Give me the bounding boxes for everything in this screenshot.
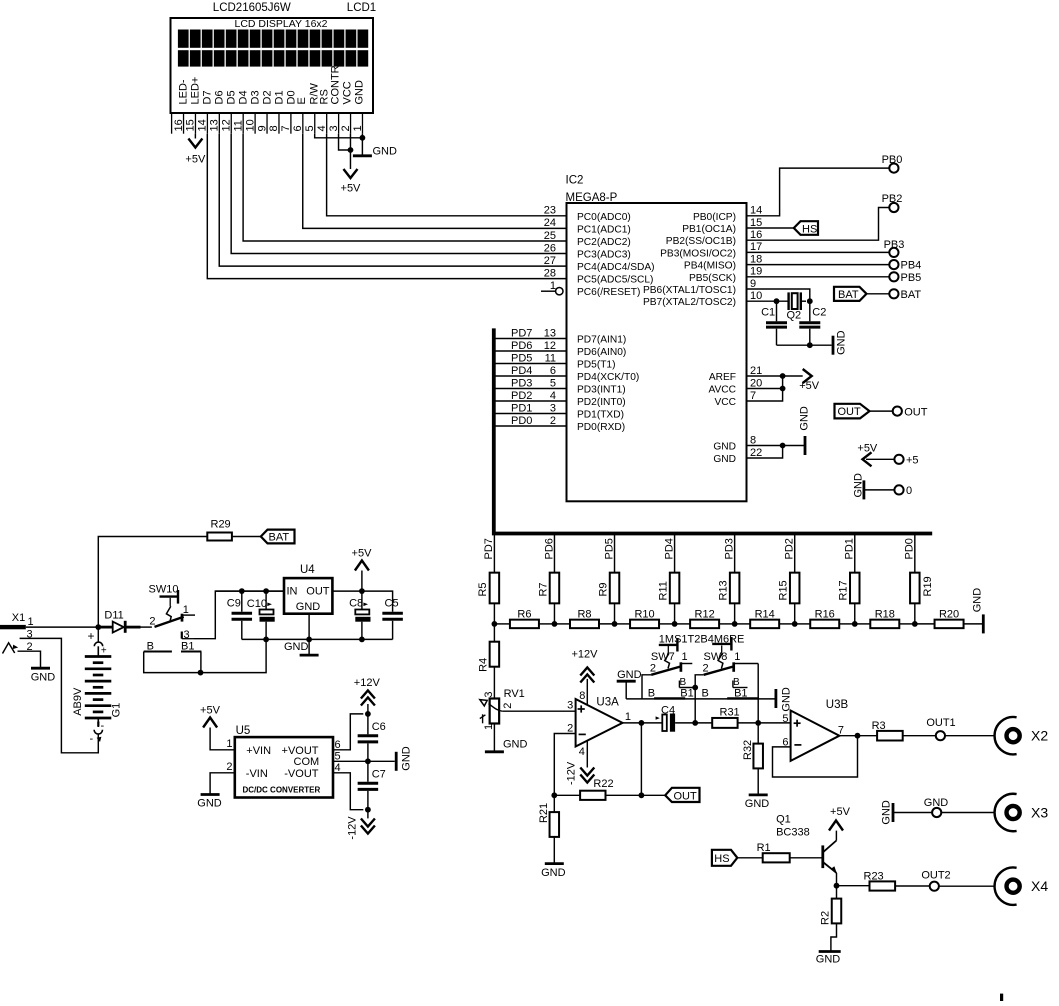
ground symbol below U4 — [284, 639, 319, 655]
svg-text:+: + — [88, 629, 95, 643]
svg-text:+5: +5 — [906, 455, 919, 467]
svg-text:PB4(MISO): PB4(MISO) — [684, 261, 736, 272]
resistor R19 — [910, 573, 934, 604]
-12V supply arrow at U5 — [347, 810, 375, 840]
wire R23 to OUT2 pad — [895, 885, 930, 887]
wire U3A pin4 to -12V — [579, 741, 588, 768]
svg-text:7: 7 — [838, 724, 844, 736]
svg-text:18: 18 — [750, 253, 762, 265]
svg-text:17: 17 — [750, 241, 762, 253]
svg-text:OUT: OUT — [904, 406, 928, 418]
junction C2 ground — [807, 342, 813, 348]
svg-text:8: 8 — [268, 125, 280, 131]
svg-text:GND: GND — [354, 80, 366, 105]
wire LCD pin14 (D7) to IC2 pin28 — [207, 134, 566, 279]
+12V supply arrow at U5 — [354, 677, 381, 714]
wire R29 to BAT tag — [232, 536, 261, 538]
svg-text:15: 15 — [750, 217, 762, 229]
wire R7 to summing row — [553, 603, 555, 624]
svg-text:C2: C2 — [812, 307, 826, 319]
junction node PD4 row — [672, 621, 678, 627]
wire diode cathode to SW10 (thick then thin) — [126, 626, 152, 629]
svg-text:PB0: PB0 — [882, 154, 903, 166]
svg-text:4: 4 — [579, 746, 585, 758]
junction -12V node — [365, 807, 371, 813]
wire IC2 pin9 XTAL1 to crystal — [747, 289, 810, 301]
svg-text:GND: GND — [713, 442, 736, 453]
svg-text:PD4: PD4 — [511, 365, 532, 377]
pad PB2 — [882, 193, 903, 212]
wire IC2 pin14 PB0 to pad — [747, 168, 890, 216]
IC2 pin 10 PB7(XTAL2/TOSC2) label — [643, 290, 762, 308]
junction node PD0 row — [912, 621, 918, 627]
junction C10 top — [263, 588, 269, 594]
svg-text:+5V: +5V — [200, 705, 221, 717]
svg-text:GND: GND — [816, 954, 841, 966]
svg-text:PD1: PD1 — [511, 402, 532, 414]
svg-text:PD5(T1): PD5(T1) — [577, 360, 616, 371]
svg-text:1: 1 — [183, 604, 189, 616]
wire U4 output rail — [332, 591, 392, 612]
svg-text:10: 10 — [750, 290, 762, 302]
svg-text:D2: D2 — [262, 90, 274, 104]
svg-text:AVCC: AVCC — [708, 385, 736, 396]
svg-text:R13: R13 — [717, 580, 729, 600]
svg-text:11: 11 — [232, 120, 244, 131]
IC2 pin 21 AREF — [709, 365, 783, 383]
svg-text:+5V: +5V — [341, 183, 362, 195]
IC2 pin 22 GND — [713, 446, 782, 466]
svg-text:5: 5 — [304, 125, 316, 131]
svg-text:13: 13 — [544, 327, 556, 339]
capacitor C4 (polarized) — [656, 705, 676, 732]
net tag OUT at IC — [835, 404, 870, 419]
svg-text:D3: D3 — [250, 90, 262, 104]
svg-text:+12V: +12V — [572, 649, 599, 661]
wire bus drop net PD2 — [784, 534, 796, 573]
label 1MS1T2B4M6RE — [659, 633, 745, 645]
svg-text:U3A: U3A — [596, 697, 619, 709]
svg-text:HS: HS — [714, 853, 729, 865]
svg-text:PD0(RXD): PD0(RXD) — [577, 422, 625, 433]
resistor R16 — [795, 609, 855, 629]
ground symbol at U5 COM — [396, 746, 412, 771]
wire U5 pin6 +VOUT to +12V node — [333, 714, 363, 751]
svg-text:VCC: VCC — [714, 397, 736, 408]
svg-text:2: 2 — [567, 722, 573, 734]
svg-text:+VOUT: +VOUT — [282, 745, 319, 757]
svg-text:PD6: PD6 — [511, 340, 532, 352]
wire LCD pin11 (D4) to IC2 pin25 — [243, 134, 566, 241]
wire U5 pin4 -VOUT to -12V node — [333, 762, 363, 810]
wire bus to IC2 pin 6 PD4(XCK/T0), net PD4 — [494, 365, 639, 383]
connector X3 — [995, 794, 1049, 831]
wire SW10 pin3 to U4 input — [194, 591, 284, 639]
svg-text:VCC: VCC — [342, 81, 354, 104]
svg-text:GND: GND — [798, 406, 810, 431]
wire LCD pin4 (RS) to IC2 pin23 — [327, 134, 567, 216]
svg-text:16: 16 — [173, 119, 185, 131]
junction pin2/pin3 — [348, 147, 354, 153]
svg-text:PD4: PD4 — [663, 538, 675, 559]
svg-text:X1: X1 — [12, 612, 25, 624]
ground symbol above B row — [617, 669, 642, 699]
svg-text:PD2(INT0): PD2(INT0) — [577, 397, 626, 408]
svg-text:4: 4 — [335, 762, 341, 774]
svg-text:GND: GND — [197, 798, 222, 810]
switch SW8 terminal B1 stub — [733, 677, 748, 688]
resistor R22 — [554, 778, 641, 800]
wire LCD pin5 to pin1 (R/W to GND) — [315, 134, 363, 138]
IC2 pin 25 PC2(ADC2) — [544, 230, 631, 248]
svg-text:B: B — [680, 677, 687, 688]
IC U2 MEGA8-P box — [566, 175, 747, 502]
connector X1 — [0, 612, 34, 653]
resistor R5 — [477, 573, 499, 604]
svg-text:25: 25 — [544, 230, 556, 242]
svg-text:+: + — [101, 646, 107, 657]
svg-text:9: 9 — [256, 125, 268, 131]
svg-text:23: 23 — [544, 205, 556, 217]
bracket marker SW8 — [712, 637, 732, 651]
ground symbol below RV1 — [485, 738, 528, 752]
svg-text:+5V: +5V — [185, 154, 206, 166]
resistor R9 — [597, 573, 619, 604]
svg-text:19: 19 — [750, 266, 762, 278]
resistor R15 — [778, 573, 800, 604]
svg-text:R12: R12 — [695, 609, 715, 621]
ground symbol at crystal — [833, 330, 848, 355]
junction battery/diode/R29 — [95, 624, 101, 630]
resistor R10 — [615, 609, 675, 629]
op-amp U3B — [782, 699, 848, 761]
svg-text:16: 16 — [750, 229, 762, 241]
junction U4 GND — [306, 637, 312, 643]
wire R21 to ground — [553, 837, 555, 863]
junction C9 top — [239, 588, 245, 594]
svg-text:3: 3 — [483, 691, 495, 697]
wire Q1 collector to +5V — [835, 831, 837, 841]
svg-text:12: 12 — [221, 119, 233, 131]
wire HS tag to R1 — [737, 857, 762, 859]
wire IC2 pin18 PB4 to pad — [747, 264, 890, 266]
wire RV1 wiper to U3A +input — [502, 710, 575, 712]
svg-text:LED+: LED+ — [190, 77, 202, 105]
svg-text:IN: IN — [287, 586, 298, 598]
svg-text:27: 27 — [544, 255, 556, 267]
svg-text:OUT: OUT — [838, 406, 862, 418]
switch SW10 — [149, 584, 196, 641]
wire RV1 to ground — [493, 724, 495, 752]
wire crystal caps to ground — [777, 344, 832, 346]
svg-text:D6: D6 — [214, 90, 226, 104]
svg-text:+5V: +5V — [830, 806, 851, 818]
X1 tip switch contact — [3, 643, 19, 654]
wire bus drop net PD0 — [904, 534, 916, 573]
svg-text:BAT: BAT — [269, 532, 290, 544]
svg-text:Q1: Q1 — [776, 814, 791, 826]
svg-text:PD7(AIN1): PD7(AIN1) — [577, 335, 626, 346]
pad OUT — [893, 406, 928, 418]
junction crystal left — [774, 298, 780, 304]
resistor R8 — [554, 609, 614, 629]
svg-text:-12V: -12V — [566, 761, 578, 785]
svg-text:G1: G1 — [111, 703, 123, 718]
wire Q1 emitter down — [836, 873, 838, 886]
wire U3A output to C4 — [641, 722, 662, 724]
svg-text:GND: GND — [713, 454, 736, 465]
junction GND pins — [780, 443, 786, 449]
pad PB5 — [889, 272, 921, 284]
wire R13 to summing row — [734, 603, 736, 624]
svg-text:R1: R1 — [757, 842, 771, 854]
svg-text:X2: X2 — [1031, 728, 1048, 744]
screen artifact bottom right — [1000, 994, 1003, 1001]
+5V supply arrow at +5 pad — [857, 442, 894, 466]
junction +12V node — [365, 711, 371, 717]
LCD pin number strip 16..1 — [172, 114, 364, 134]
svg-text:C1: C1 — [761, 307, 775, 319]
svg-text:CONTR: CONTR — [330, 65, 342, 104]
resistor R1 — [757, 842, 790, 862]
pad OUT1 — [926, 717, 955, 740]
LCD pin name labels — [178, 65, 366, 104]
svg-text:DC/DC CONVERTER: DC/DC CONVERTER — [243, 786, 321, 795]
net tag BAT — [834, 287, 867, 301]
svg-text:C5: C5 — [385, 598, 399, 610]
svg-text:GND: GND — [296, 601, 321, 613]
svg-text:PB2(SS/OC1B): PB2(SS/OC1B) — [666, 236, 736, 247]
svg-text:BAT: BAT — [901, 289, 922, 301]
svg-text:7: 7 — [750, 390, 756, 402]
svg-text:PD0: PD0 — [904, 538, 916, 559]
junction node PD2 row — [792, 621, 798, 627]
svg-text:PD2: PD2 — [784, 538, 796, 559]
svg-text:PD7: PD7 — [511, 327, 532, 339]
svg-text:8: 8 — [579, 690, 585, 702]
wire R5 to summing row — [493, 603, 495, 624]
svg-text:PB5(SCK): PB5(SCK) — [689, 273, 736, 284]
svg-text:5: 5 — [782, 713, 788, 725]
svg-text:22: 22 — [750, 447, 762, 459]
svg-text:R18: R18 — [875, 609, 895, 621]
svg-text:R14: R14 — [755, 609, 775, 621]
wire bus drop net PD6 — [543, 534, 555, 573]
junction +5V/C8 — [359, 588, 365, 594]
svg-text:26: 26 — [544, 242, 556, 254]
svg-text:1: 1 — [483, 724, 495, 730]
wire bus drop net PD7 — [483, 534, 495, 573]
wire LCD pin1 to GND — [361, 134, 363, 156]
svg-text:X3: X3 — [1031, 805, 1048, 821]
svg-text:R8: R8 — [577, 609, 591, 621]
wire bus to IC2 pin 2 PD0(RXD), net PD0 — [494, 415, 625, 433]
svg-text:COM: COM — [294, 756, 320, 768]
svg-text:PC3(ADC3): PC3(ADC3) — [577, 250, 631, 261]
capacitor C8 (polarized) — [349, 591, 370, 639]
svg-text:PB2: PB2 — [882, 193, 903, 205]
svg-text:PD1(TXD): PD1(TXD) — [577, 410, 624, 421]
junction COM node — [365, 758, 371, 764]
svg-text:GND: GND — [284, 641, 309, 653]
wire emitter node to R23 — [837, 885, 870, 887]
wire X1 pin1 to diode node — [26, 626, 99, 628]
switch SW10 terminal B and B1 — [144, 641, 202, 653]
svg-text:PC6(/RESET): PC6(/RESET) — [577, 287, 640, 298]
svg-text:R19: R19 — [922, 576, 934, 596]
svg-text:2: 2 — [550, 415, 556, 427]
svg-text:R4: R4 — [477, 658, 489, 672]
svg-text:SW10: SW10 — [149, 584, 179, 596]
svg-text:R29: R29 — [211, 519, 231, 531]
junction node PD5 row — [612, 621, 618, 627]
capacitor C7 — [358, 761, 386, 809]
resistor R3 — [872, 720, 903, 741]
svg-text:OUT1: OUT1 — [926, 717, 955, 729]
junction C8 bottom — [359, 637, 365, 643]
op-amp U3A — [567, 697, 631, 747]
svg-text:D11: D11 — [104, 610, 123, 622]
wire U3A output to node — [623, 722, 642, 724]
wire U3A pin8 to +12V — [579, 679, 587, 705]
svg-text:14: 14 — [197, 119, 209, 131]
junction U3B output — [855, 733, 861, 739]
svg-text:RV1: RV1 — [504, 688, 525, 700]
svg-text:R6: R6 — [517, 609, 531, 621]
svg-text:GND: GND — [836, 330, 848, 355]
wire U3B feedback pin6 to output — [773, 736, 858, 777]
wire LCD pin13 (D6) to IC2 pin27 — [219, 134, 566, 266]
wire U5 pin1 to +5V — [210, 728, 235, 751]
svg-text:AB9V: AB9V — [72, 687, 84, 716]
svg-text:R21: R21 — [538, 803, 550, 823]
resistor R12 — [675, 609, 735, 629]
junction node PD3 row — [732, 621, 738, 627]
svg-text:1: 1 — [226, 738, 232, 750]
svg-text:R20: R20 — [939, 609, 959, 621]
pad GND — [924, 797, 949, 817]
battery G1 AB9V — [72, 657, 123, 719]
svg-text:5: 5 — [550, 377, 556, 389]
svg-text:PB7(XTAL2/TOSC2): PB7(XTAL2/TOSC2) — [643, 297, 736, 308]
ground symbol at 0 pad — [853, 473, 895, 499]
svg-text:1: 1 — [682, 651, 688, 663]
IC2 pin 9 PB6(XTAL1/TOSC1) label — [643, 278, 756, 296]
voltage regulator U4 — [284, 564, 332, 614]
ground symbol at ladder end — [972, 588, 984, 634]
svg-text:U4: U4 — [300, 564, 315, 576]
wire R11 to summing row — [674, 603, 676, 624]
IC2 pin 17 PB3(MOSI/OC2) label — [660, 241, 762, 259]
svg-text:GND: GND — [881, 800, 893, 825]
IC2 pin 16 PB2(SS/OC1B) label — [666, 229, 762, 247]
svg-text:C7: C7 — [372, 768, 386, 780]
wire U3B output to R3 — [839, 735, 877, 737]
svg-text:LCD21605J6W: LCD21605J6W — [213, 2, 291, 14]
pad BAT — [889, 289, 921, 301]
wire R9 to summing row — [614, 603, 616, 624]
svg-text:GND: GND — [503, 738, 528, 750]
svg-text:B: B — [702, 688, 709, 700]
resistor R20 — [915, 609, 983, 629]
ground rail under U4 — [242, 638, 393, 640]
resistor R17 — [838, 573, 860, 604]
svg-text:BC338: BC338 — [776, 827, 810, 839]
svg-text:C10: C10 — [247, 598, 267, 610]
svg-text:0: 0 — [906, 485, 912, 497]
pad 0 — [894, 485, 912, 497]
svg-text:R9: R9 — [597, 582, 609, 596]
capacitor C9 — [227, 591, 252, 639]
wire U4 input rail — [215, 590, 284, 592]
svg-text:12: 12 — [544, 340, 556, 352]
svg-text:GND: GND — [924, 797, 949, 809]
wire GND pad to X3 — [941, 812, 994, 814]
svg-text:GND: GND — [617, 669, 642, 681]
svg-text:PD3(INT1): PD3(INT1) — [577, 385, 626, 396]
switch SW10 pin3 stub — [182, 632, 194, 639]
IC2 pin 19 PB5(SCK) label — [689, 266, 762, 284]
junction R21/R22 — [551, 792, 557, 798]
svg-text:LCD1: LCD1 — [347, 2, 376, 14]
ground symbol at IC2 pin 8 — [798, 406, 810, 455]
svg-text:GND: GND — [31, 672, 56, 684]
svg-text:PD4(XCK/T0): PD4(XCK/T0) — [577, 372, 639, 383]
svg-text:D7: D7 — [202, 90, 214, 104]
svg-text:R10: R10 — [634, 609, 654, 621]
svg-text:GND: GND — [541, 867, 566, 879]
ground symbol below LCD pin1 — [353, 146, 397, 158]
svg-text:PB4: PB4 — [901, 260, 922, 272]
resistor R32 — [742, 723, 763, 768]
wire BAT tag to pad — [867, 293, 890, 295]
diode D11 — [104, 610, 125, 633]
wire bus to IC2 pin 12 PD6(AIN0), net PD6 — [494, 340, 626, 358]
wire bus to IC2 pin 3 PD1(TXD), net PD1 — [494, 402, 624, 420]
svg-text:C6: C6 — [372, 721, 386, 733]
battery negative terminal — [90, 718, 105, 745]
svg-text:R5: R5 — [477, 582, 489, 596]
resistor R29 — [207, 519, 232, 541]
wire LCD pin15 to +5V — [194, 134, 196, 139]
potentiometer RV1 — [480, 688, 525, 730]
svg-text:D5: D5 — [226, 90, 238, 104]
wire R32 to ground — [757, 768, 759, 794]
svg-text:C9: C9 — [227, 598, 241, 610]
wire LCD pin6 (E) to IC2 pin24 — [303, 134, 567, 229]
wire bus to IC2 pin 13 PD7(AIN1), net PD7 — [494, 327, 626, 345]
wire R3 to OUT1 pad — [903, 735, 936, 737]
svg-text:Q2: Q2 — [787, 310, 802, 322]
+5V supply arrow at LCD backlight — [185, 139, 206, 166]
svg-text:GND: GND — [853, 473, 865, 498]
svg-text:PD7: PD7 — [483, 538, 495, 559]
svg-text:8: 8 — [750, 434, 756, 446]
svg-text:HS: HS — [802, 223, 817, 235]
svg-text:X4: X4 — [1031, 878, 1048, 894]
svg-text:PD6: PD6 — [543, 538, 555, 559]
junction C10 bottom — [263, 637, 269, 643]
svg-text:PB1(OC1A): PB1(OC1A) — [682, 224, 736, 235]
IC2 pin 8 GND — [713, 434, 805, 452]
wire OUT1 to X2 — [945, 735, 994, 737]
junction SW7 B1 to SW8 pin2 drop — [692, 685, 698, 691]
net tag HS at Q1 — [712, 850, 737, 866]
svg-text:R16: R16 — [815, 609, 835, 621]
svg-text:PD5: PD5 — [603, 538, 615, 559]
wire LCD pin2 down to +5V — [349, 134, 351, 169]
resistor R18 — [855, 609, 915, 629]
